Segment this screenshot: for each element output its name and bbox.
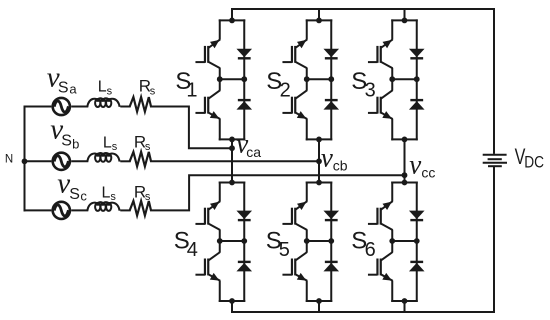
svg-text:N: N (5, 153, 13, 165)
junction S1 middle right (241, 76, 247, 82)
svg-text:s: s (110, 191, 116, 203)
label Rs phase a (139, 77, 156, 98)
AC source vsc (53, 202, 70, 219)
wire cell S3 top rail (391, 19, 418, 21)
svg-text:v: v (321, 142, 333, 172)
wire cell S1 right branch (243, 19, 245, 140)
wire cell S6 left branch middle (391, 230, 393, 253)
label vsb (50, 113, 79, 151)
wire cell S1 top rail (219, 19, 246, 21)
IGBT upper of S3 (368, 39, 393, 68)
resistor Rs phase c (130, 201, 151, 216)
wire cell S6 top rail (391, 182, 418, 184)
wire bus to source vsb (24, 160, 52, 162)
junction at node N (22, 158, 28, 164)
wire cell S1 left branch lower (219, 119, 221, 141)
wire cell S2 bottom rail (306, 138, 333, 140)
IGBT lower of S2 (282, 90, 307, 119)
wire stub top rail to cell S2 (318, 8, 320, 20)
wire cell S4 left branch upper (219, 182, 221, 202)
svg-text:S: S (69, 186, 80, 203)
junction cell S6 bottom (402, 298, 408, 304)
junction S4 middle left (217, 238, 223, 244)
diode lower of S5 (323, 262, 339, 272)
diode upper of S2 (323, 49, 339, 59)
svg-text:s: s (107, 85, 113, 97)
svg-text:DC: DC (524, 153, 544, 172)
wire cell S2 right branch (330, 19, 332, 140)
svg-text:s: s (112, 141, 118, 153)
wire source vsb to Ls (71, 160, 88, 162)
wire Ls to Rs phase c (120, 209, 130, 211)
junction S4 middle right (241, 238, 247, 244)
wire stub cell S4 to bottom rail (231, 301, 233, 313)
junction cell S1 top (229, 18, 235, 24)
junction cell S2 top (316, 18, 322, 24)
junction S5 middle left (304, 238, 310, 244)
svg-text:s: s (145, 141, 151, 153)
wire right bus lower (493, 166, 495, 312)
junction cell S6 top (402, 180, 408, 186)
junction cell S4 bottom (229, 298, 235, 304)
wire cell S1 left branch middle (219, 68, 221, 91)
DC negative rail (bottom) (233, 311, 496, 313)
wire bus to source vsc (24, 209, 52, 211)
junction S1 middle left (217, 76, 223, 82)
wire Rs to node vca (150, 107, 232, 149)
svg-text:2: 2 (280, 79, 291, 101)
junction S5 middle right (328, 238, 334, 244)
junction S3 middle left (389, 76, 395, 82)
label N (5, 153, 13, 165)
wire stub cell S5 to bottom rail (318, 301, 320, 313)
svg-text:L: L (102, 185, 111, 202)
svg-text:ca: ca (246, 144, 261, 160)
wire cell S2 middle junction link (307, 78, 332, 80)
svg-text:1: 1 (186, 80, 197, 102)
wire cell S5 left branch upper (306, 182, 308, 202)
diode upper of S6 (409, 211, 425, 221)
diode lower of S3 (409, 100, 425, 110)
wire source vsa to Ls (71, 106, 88, 108)
wire cell S6 right branch (416, 182, 418, 303)
svg-text:s: s (150, 85, 156, 97)
junction S3 middle right (414, 76, 420, 82)
wire bus to source vsa (24, 106, 52, 108)
svg-text:a: a (69, 81, 77, 96)
label vcc (409, 149, 435, 180)
wire cell S4 left branch lower (219, 281, 221, 302)
junction cell S2 bottom (316, 137, 322, 143)
wire Rs to node vcc (150, 175, 405, 210)
wire cell S3 bottom rail (391, 138, 418, 140)
IGBT lower of S5 (282, 252, 307, 281)
wire cell S4 bottom rail (219, 300, 246, 302)
svg-text:cc: cc (421, 165, 435, 181)
IGBT upper of S6 (368, 201, 393, 230)
svg-text:L: L (98, 79, 107, 96)
label S4 (174, 228, 198, 262)
inductor Ls phase a (87, 98, 119, 107)
wire stub cell S6 to bottom rail (404, 301, 406, 313)
label S5 (266, 228, 290, 262)
wire Ls to Rs phase a (120, 106, 130, 108)
wire right bus upper (493, 8, 495, 154)
svg-text:c: c (80, 189, 87, 204)
diode upper of S1 (236, 49, 252, 59)
wire cell S6 bottom rail (391, 300, 418, 302)
IGBT lower of S6 (368, 252, 393, 281)
AC source vsb (53, 153, 70, 170)
diode lower of S1 (236, 100, 252, 110)
label Rs phase b (134, 132, 151, 153)
label vca (236, 128, 261, 160)
wire Rs to node vcb (150, 160, 319, 162)
IGBT lower of S4 (195, 252, 220, 281)
junction S2 middle left (304, 76, 310, 82)
wire source vsc to Ls (71, 209, 88, 211)
label S6 (351, 228, 375, 262)
svg-text:cb: cb (333, 157, 348, 173)
wire stub top rail to cell S1 (231, 8, 233, 20)
node vcc (402, 172, 408, 178)
wire cell S2 left branch upper (306, 19, 308, 39)
IGBT upper of S5 (282, 201, 307, 230)
label vsa (47, 62, 78, 97)
junction cell S5 bottom (316, 298, 322, 304)
AC source vsa (53, 98, 70, 115)
wire cell S2 top rail (306, 19, 333, 21)
wire Ls to Rs phase b (120, 160, 130, 162)
label Ls phase b (103, 134, 118, 153)
label S1 (175, 68, 197, 102)
svg-text:s: s (145, 191, 151, 203)
label Ls phase a (98, 79, 113, 98)
IGBT upper of S2 (282, 39, 307, 68)
node vca (229, 145, 235, 151)
wire cell S6 left branch upper (391, 182, 393, 202)
wire stub top rail to cell S3 (404, 8, 406, 20)
label VDC (515, 144, 544, 172)
label Rs phase c (134, 183, 151, 204)
diode upper of S5 (323, 211, 339, 221)
resistor Rs phase a (130, 97, 151, 112)
svg-text:b: b (72, 137, 79, 152)
node vcb (316, 158, 322, 164)
wire cell S5 bottom rail (306, 300, 333, 302)
diode lower of S6 (409, 262, 425, 272)
wire cell S5 left branch lower (306, 281, 308, 302)
wire cell S5 middle junction link (307, 240, 332, 242)
wire cell S2 left branch middle (306, 68, 308, 91)
junction S6 middle left (389, 238, 395, 244)
junction cell S3 top (402, 18, 408, 24)
IGBT lower of S1 (195, 90, 220, 119)
label vsc (57, 167, 87, 203)
diode lower of S2 (323, 100, 339, 110)
junction cell S1 bottom (229, 137, 235, 143)
wire cell S6 left branch lower (391, 281, 393, 302)
wire cell S1 middle junction link (220, 78, 245, 80)
wire left bus vertical (N bus) (24, 106, 26, 212)
diode lower of S4 (236, 262, 252, 272)
IGBT lower of S3 (368, 90, 393, 119)
wire cell S4 middle junction link (220, 240, 245, 242)
wire cell S6 middle junction link (392, 240, 417, 242)
IGBT upper of S1 (195, 39, 220, 68)
inductor Ls phase c (87, 202, 119, 211)
diode upper of S4 (236, 211, 252, 221)
resistor Rs phase b (130, 152, 151, 167)
wire cell S1 bottom rail (219, 138, 246, 140)
DC positive rail (top) (231, 8, 494, 10)
svg-text:4: 4 (187, 239, 198, 261)
wire cell S1 left branch upper (219, 19, 221, 39)
junction cell S4 top (229, 180, 235, 186)
svg-text:v: v (409, 149, 421, 179)
label S3 (351, 68, 375, 102)
svg-text:6: 6 (365, 239, 376, 261)
wire cell S2 left branch lower (306, 119, 308, 141)
svg-text:3: 3 (365, 79, 376, 101)
wire S1 to S4 vertical (phase a leg) (231, 139, 233, 182)
diode upper of S3 (409, 49, 425, 59)
wire cell S3 left branch lower (391, 119, 393, 141)
wire cell S3 middle junction link (392, 78, 417, 80)
wire cell S3 left branch upper (391, 19, 393, 39)
wire cell S4 left branch middle (219, 230, 221, 253)
inductor Ls phase b (87, 153, 119, 162)
svg-text:5: 5 (279, 239, 290, 261)
junction S6 middle right (414, 238, 420, 244)
svg-text:L: L (103, 134, 112, 151)
wire cell S4 top rail (219, 182, 246, 184)
DC source VDC battery (483, 155, 507, 166)
wire S3 to S6 vertical (phase c leg) (404, 139, 406, 182)
junction cell S5 top (316, 180, 322, 186)
junction cell S3 bottom (402, 137, 408, 143)
wire cell S3 left branch middle (391, 68, 393, 91)
wire S2 to S5 vertical (phase b leg) (318, 139, 320, 182)
wire cell S3 right branch (416, 19, 418, 140)
label vcb (321, 142, 348, 173)
svg-text:S: S (58, 80, 69, 97)
junction S2 middle right (328, 76, 334, 82)
label S2 (266, 68, 290, 102)
label Ls phase c (102, 185, 117, 204)
wire cell S5 right branch (330, 182, 332, 303)
IGBT upper of S4 (195, 201, 220, 230)
wire cell S5 top rail (306, 182, 333, 184)
wire cell S4 right branch (243, 182, 245, 303)
svg-text:S: S (61, 132, 72, 149)
wire cell S5 left branch middle (306, 230, 308, 253)
